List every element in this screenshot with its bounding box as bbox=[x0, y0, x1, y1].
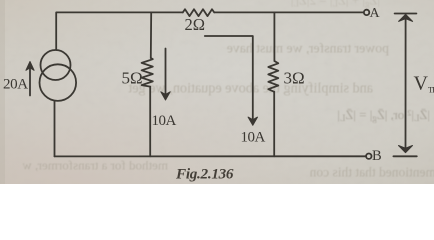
caption Fig.2.136 bbox=[175, 166, 234, 183]
label 10A (2Ω branch) bbox=[241, 130, 266, 146]
svg-text:mentioned that this con: mentioned that this con bbox=[309, 165, 434, 180]
svg-text:5Ω: 5Ω bbox=[122, 69, 143, 88]
label 10A (5Ω branch) bbox=[152, 113, 177, 129]
label 20A bbox=[3, 77, 28, 93]
wire: bottom rail bbox=[55, 155, 366, 157]
svg-text:A: A bbox=[370, 6, 381, 21]
svg-text:20A: 20A bbox=[3, 77, 28, 93]
wire: 5Ω branch top bbox=[150, 12, 152, 58]
wire: 3Ω branch bottom bbox=[273, 92, 275, 157]
svg-text:10A: 10A bbox=[152, 113, 177, 129]
node A terminal circle bbox=[364, 10, 369, 15]
svg-text:|Z̄g| + |Z̄L| = 2|Z̄L|: |Z̄g| + |Z̄L| = 2|Z̄L| bbox=[291, 0, 380, 9]
resistor 3Ω bbox=[268, 61, 278, 92]
svg-text:10A: 10A bbox=[241, 130, 266, 146]
label 2Ω bbox=[185, 15, 206, 34]
20A arrow bbox=[26, 62, 34, 96]
resistor 2Ω bbox=[183, 9, 214, 16]
svg-text:3Ω: 3Ω bbox=[284, 69, 305, 88]
svg-text:power transfer, we must have: power transfer, we must have bbox=[227, 41, 389, 56]
svg-text:method for a transformer, w: method for a transformer, w bbox=[22, 158, 168, 173]
svg-text:Fig.2.136: Fig.2.136 bbox=[175, 166, 234, 183]
wire: 5Ω branch bottom bbox=[149, 87, 151, 157]
paper background bbox=[0, 0, 434, 184]
background bleed-through text bbox=[22, 0, 434, 180]
label 3Ω bbox=[284, 69, 305, 88]
wire: top left from source to 2Ω bbox=[56, 12, 183, 49]
circuit drawing bbox=[26, 9, 417, 159]
svg-text:2Ω: 2Ω bbox=[185, 15, 206, 34]
10A bent arrow (2Ω branch) bbox=[205, 36, 258, 125]
current source 20A (overlapping circles) bbox=[40, 50, 77, 101]
VTH measurement arrow bbox=[393, 14, 416, 157]
svg-text:B: B bbox=[372, 148, 382, 164]
label 5Ω bbox=[122, 69, 143, 88]
10A arrow (5Ω branch) bbox=[161, 49, 170, 101]
node B terminal circle bbox=[366, 154, 371, 159]
wire: source bottom stub bbox=[54, 101, 56, 157]
wire: 3Ω branch top bbox=[273, 12, 275, 61]
label A bbox=[370, 6, 381, 21]
label B bbox=[372, 148, 382, 164]
label VTH bbox=[414, 73, 434, 95]
resistor 5Ω bbox=[142, 58, 153, 87]
wire: 2Ω to terminal A bbox=[214, 11, 363, 13]
